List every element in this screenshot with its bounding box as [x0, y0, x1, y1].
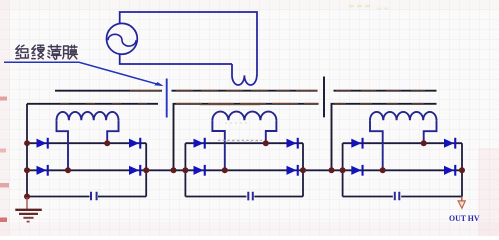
stage 1 row 1 wire [27, 142, 146, 144]
node row2/L3 lead [380, 167, 386, 173]
diode D5 stage2 row1 left [194, 139, 204, 148]
misc scan artifacts [218, 6, 391, 142]
stage 2 bottom wire with C2 gap [185, 196, 303, 198]
inductor L2 (stage 2 secondary, 4 humps) [212, 112, 276, 121]
node row1/L1 lead [104, 140, 110, 146]
stage 1 right edge [145, 143, 147, 196]
node row1/left rail [24, 140, 30, 146]
diode D7 stage2 row2 left [194, 166, 204, 175]
node row2/stage1 right edge [143, 167, 149, 173]
stage 2 top rail with drop to bus [174, 104, 319, 171]
diodes (blue) [37, 138, 457, 176]
node row2/L2 lead [222, 167, 228, 173]
HV bus (row 2 rail) [27, 169, 462, 171]
film capacitor upper plate, right segment [334, 90, 437, 92]
svg-text:OUT HV: OUT HV [449, 213, 480, 223]
diode D11 stage3 row2 left [351, 166, 361, 175]
diode D9 stage3 row1 left [351, 139, 361, 148]
diode D6 stage2 row1 right [287, 139, 297, 148]
diode D4 stage1 row2 right [129, 166, 139, 175]
capacitor C2 (stage 2 bottom) [248, 192, 253, 201]
junction dots (dark red) [24, 140, 465, 199]
stage 1 top rail [27, 103, 158, 105]
inductor L1 (stage 1 secondary, 5 humps) [57, 112, 437, 171]
capacitor C3 (stage 3 bottom) [395, 192, 400, 200]
diode D1 stage1 row1 left [37, 139, 47, 148]
node row2/left rail [24, 167, 30, 173]
AC source loop: bottom wire [120, 54, 232, 64]
stage 2 right edge [302, 143, 304, 196]
ground symbol [15, 197, 42, 222]
node row2/stage2 right edge [300, 167, 306, 173]
stage 3 right edge [461, 143, 463, 196]
node row2/stage2 left edge [182, 167, 188, 173]
output terminal marker [458, 197, 465, 209]
AC source loop: top wire [107, 12, 258, 85]
diode D2 stage1 row1 right [129, 139, 139, 148]
AC source V1 circle [107, 23, 138, 54]
node row2/stage3 right edge [459, 167, 465, 173]
leader arrow from label to film [4, 62, 162, 85]
insulating film 2 vertical (dark) [323, 77, 325, 118]
diode D10 stage3 row1 right [444, 139, 454, 148]
node row2/stage3 left edge [340, 167, 346, 173]
node row2/film drop 2 [329, 167, 335, 173]
film capacitor upper plate, left segment [55, 90, 162, 92]
node row2/L1 lead [65, 167, 71, 173]
stage 1 left rail [26, 104, 28, 197]
film capacitor upper plate, middle segment [172, 90, 318, 92]
primary winding L0 (2 bumps) [232, 64, 257, 85]
orange fringe artifacts on plate lines [60, 90, 430, 105]
node ground tee [24, 194, 30, 200]
insulating film 1 vertical (blue) [166, 79, 168, 118]
AC source sine symbol [108, 34, 136, 46]
node row2/film drop 1 [171, 167, 177, 173]
stage 3 bottom wire with C3 gap [343, 196, 462, 198]
capacitor C1 (stage 1 bottom) [91, 192, 399, 201]
stage 2 left edge [184, 143, 186, 196]
label 绝缘薄膜 (insulating film), hand-drawn glyph strokes [16, 45, 78, 59]
main wires (dark navy) [27, 104, 462, 197]
inductor L3 (stage 3 secondary, 5 humps) [370, 112, 436, 120]
stage 3 top rail with drop to bus [332, 104, 437, 171]
stage 3 left edge [342, 143, 344, 196]
diode D8 stage2 row2 right [287, 166, 297, 175]
node row1/L3 lead [421, 140, 427, 146]
diode D3 stage1 row2 left [37, 166, 47, 175]
stage 2 row 1 wire [185, 142, 303, 144]
stage 1 bottom wire with C1 gap [27, 196, 146, 198]
stage 3 row 1 wire [343, 142, 462, 144]
node row1/L2 lead [263, 140, 269, 146]
diode D12 stage3 row2 right [444, 166, 454, 175]
